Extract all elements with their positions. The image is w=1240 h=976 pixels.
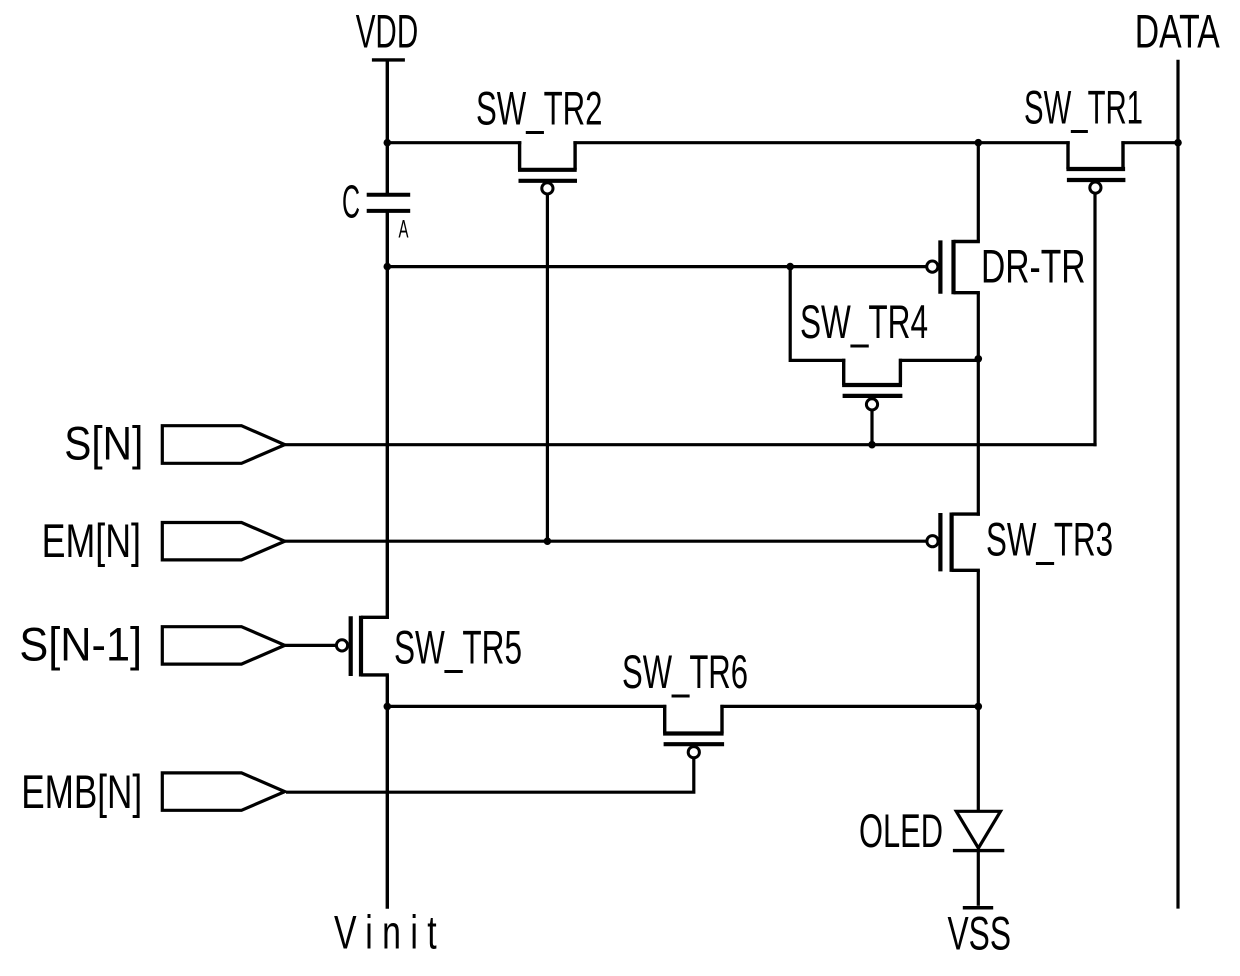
wire OLED anode (977, 706, 980, 813)
svg-text:VDD: VDD (356, 5, 419, 58)
svg-text:EM[N]: EM[N] (42, 514, 141, 567)
transistor SW_TR2 (476, 82, 603, 194)
svg-text:DR-TR: DR-TR (981, 239, 1086, 292)
wire SW_TR5 source to Vinit (386, 675, 389, 909)
power VSS terminal (948, 907, 1012, 960)
svg-text:A: A (399, 215, 409, 243)
svg-text:SW_TR3: SW_TR3 (986, 512, 1113, 565)
transistor SW_TR4 (790, 267, 978, 410)
svg-text:SW_TR4: SW_TR4 (800, 295, 928, 348)
wire EM[N] row (285, 540, 927, 543)
wire SW_TR4 gate to S[N] row (870, 409, 873, 444)
svg-text:C: C (342, 176, 360, 228)
svg-text:EMB[N]: EMB[N] (21, 765, 142, 818)
svg-text:OLED: OLED (859, 804, 943, 857)
wire OLED cathode to VSS (977, 851, 980, 906)
wire bottom rail left segment (387, 705, 666, 708)
node VDD top-rail junction (384, 139, 392, 147)
wire top rail right segment (1121, 141, 1178, 144)
wire capacitor bottom to SW_TR5 (386, 211, 389, 619)
node S[N-1] input flag (19, 618, 284, 671)
wire S[N-1] row to SW_TR5 gate (285, 644, 337, 647)
node SW_TR4 gate / S[N] wire junction (868, 441, 876, 449)
svg-text:SW_TR5: SW_TR5 (394, 620, 522, 673)
diode OLED (859, 804, 1004, 857)
wire SW_TR6 gate to EMB[N] row (286, 758, 694, 792)
wire SW_TR2 gate to EM[N] row (546, 194, 549, 542)
wire DR-TR drain vertical (977, 143, 980, 242)
svg-text:SW_TR6: SW_TR6 (622, 645, 748, 698)
wire SW_TR1 gate to S[N] row (1093, 193, 1096, 446)
transistor SW_TR5 (336, 616, 522, 677)
wire top rail middle segment (573, 141, 1069, 144)
wire SW_TR3 source down to bottom rail (977, 570, 980, 708)
svg-text:S[N]: S[N] (64, 417, 143, 470)
transistor DR-TR (927, 239, 1086, 294)
svg-text:Vinit: Vinit (334, 906, 446, 959)
node EMB[N] input flag (21, 765, 285, 818)
node bottom rail left junction (384, 703, 392, 711)
power VDD terminal (356, 5, 419, 60)
transistor SW_TR1 (1024, 81, 1143, 194)
transistor SW_TR6 (622, 645, 748, 758)
node bottom rail / OLED column junction (975, 703, 983, 711)
svg-text:DATA: DATA (1135, 5, 1220, 58)
wire bottom rail right segment (720, 705, 978, 708)
node EM[N] input flag (42, 514, 285, 567)
node SW_TR2 gate / EM[N] wire junction (544, 537, 552, 545)
transistor SW_TR3 (927, 512, 1113, 572)
wire DR-TR gate row (387, 265, 927, 268)
node top rail / DR-TR drain junction (975, 139, 983, 147)
wire DATA vertical line (1176, 60, 1179, 909)
wire top rail left segment (387, 141, 521, 144)
svg-text:VSS: VSS (948, 907, 1012, 960)
svg-text:SW_TR1: SW_TR1 (1024, 81, 1143, 134)
wire S[N] row (285, 443, 1097, 446)
capacitor C_A (342, 176, 410, 244)
node S[N] input flag (64, 417, 284, 470)
node capacitor column / DR-TR gate wire junction (384, 263, 392, 271)
wire DR-TR source vertical down to SW_TR3 (977, 293, 980, 516)
node DR-TR source / SW_TR4 right terminal junction (975, 355, 983, 363)
wire VDD vertical to capacitor (386, 60, 389, 194)
node gate row / SW_TR4 left terminal junction (786, 263, 794, 271)
svg-text:S[N-1]: S[N-1] (19, 618, 142, 671)
node top rail / DATA junction (1174, 139, 1182, 147)
svg-text:SW_TR2: SW_TR2 (476, 82, 603, 135)
